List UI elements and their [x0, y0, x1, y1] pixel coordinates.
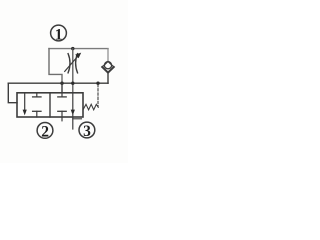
check valve CV1 stem from top line [107, 49, 109, 62]
check valve CV1 lower stem [107, 73, 109, 84]
node dot bus-centre [71, 82, 74, 85]
wire: bus left drop to pilot [8, 83, 17, 103]
check valve CV1 ball [104, 62, 111, 69]
wire: lower bus [8, 82, 108, 84]
valve V1 left position blocked port (bottom T) [33, 110, 41, 112]
valve V1 left position flow arrow [23, 93, 27, 116]
port 3 label circle [79, 122, 95, 138]
valve V1 position divider [49, 93, 51, 117]
svg-text:1: 1 [55, 26, 63, 43]
node junction dot at throttle/top line [71, 47, 74, 50]
valve V1 right position blocked port (bottom T, stub to port 2) [58, 110, 66, 112]
svg-text:2: 2 [41, 123, 49, 140]
node dot bus-pilot [96, 82, 99, 85]
pilot line (dashed) to spring end [97, 85, 99, 107]
wire: vertical through throttle down to valve [72, 49, 74, 93]
valve V1 right position blocked port (top T) [61, 93, 63, 97]
port 2 label circle [37, 122, 53, 138]
throttle FC1 right arc [76, 54, 78, 73]
throttle FC1 adjustable arrow [65, 53, 82, 72]
wire: drop to valve blocked port [61, 83, 63, 93]
node dot bus-left [60, 82, 63, 85]
valve V1 left position blocked port (top T) [36, 93, 38, 97]
check valve CV1 seat (thick lower V) [102, 67, 114, 73]
throttle FC1 left arc [68, 54, 70, 73]
valve V1 right position flow arrow to port 3 [71, 93, 75, 129]
svg-text:3: 3 [83, 123, 91, 140]
check valve CV1 diamond upper edges [102, 61, 114, 67]
port 1 label circle [51, 25, 67, 41]
spring S1 [83, 104, 98, 110]
wire: port 1 top line [49, 48, 108, 50]
wire: left branch with jog down to lower bus [49, 49, 62, 84]
valve V1 envelope [17, 93, 83, 117]
wire: port 3 stub tick [73, 118, 82, 120]
